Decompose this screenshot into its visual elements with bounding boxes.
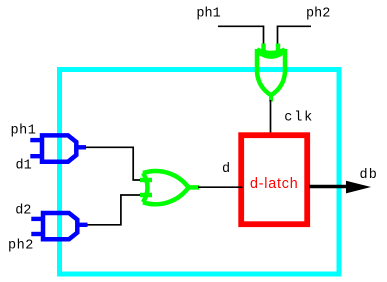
wire d (or output to d-latch) xyxy=(198,186,243,188)
svg-text:d1: d1 xyxy=(16,159,32,174)
and gate A1 (inputs ph1, d1) xyxy=(30,135,86,161)
xor gate U1 (clock generator, pointing down) xyxy=(257,44,285,102)
output arrow db xyxy=(309,181,371,194)
label ph1 (top input) xyxy=(196,6,220,21)
label clk xyxy=(284,111,314,126)
outer block boundary box xyxy=(60,70,340,275)
label ph2 (left input) xyxy=(8,238,34,253)
label d-latch xyxy=(250,176,299,192)
svg-text:db: db xyxy=(360,168,379,183)
label d xyxy=(222,162,230,177)
svg-text:ph2: ph2 xyxy=(8,238,34,253)
label d1 xyxy=(16,159,32,174)
svg-text:clk: clk xyxy=(284,111,314,126)
svg-text:d-latch: d-latch xyxy=(250,176,299,192)
svg-text:ph2: ph2 xyxy=(306,6,330,21)
wire and2 output to or input xyxy=(87,195,141,225)
or gate O1 (pointing right) xyxy=(140,171,199,204)
wire ph1 to xor input xyxy=(218,26,264,47)
wire ph2 to xor input xyxy=(278,26,312,47)
wire clk (xor output to d-latch) xyxy=(270,100,272,133)
wire and1 output to or input xyxy=(86,147,142,180)
d-latch box U2 xyxy=(241,135,307,224)
svg-text:d2: d2 xyxy=(15,204,31,219)
svg-text:ph1: ph1 xyxy=(196,6,220,21)
label ph2 (top input) xyxy=(306,6,330,21)
label d2 xyxy=(15,204,31,219)
svg-text:d: d xyxy=(222,162,230,177)
label db xyxy=(360,168,379,183)
and gate A2 (inputs d2, ph2) xyxy=(31,213,87,239)
svg-text:ph1: ph1 xyxy=(11,123,37,138)
label ph1 (left input) xyxy=(11,123,37,138)
